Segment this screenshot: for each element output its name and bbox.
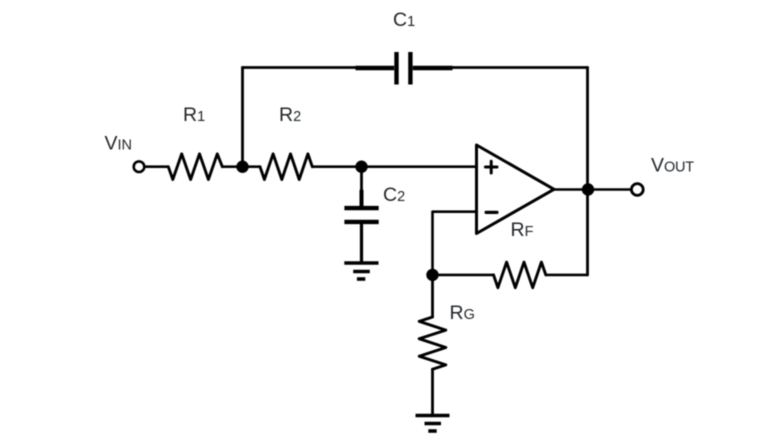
wire: R2 to node B <box>312 165 361 168</box>
wire: node A up to top feedback rail <box>241 68 244 167</box>
op-amp minus sign (inverting input) <box>486 211 497 214</box>
ground (below RG) <box>416 416 450 432</box>
svg-text:R1: R1 <box>183 104 205 126</box>
wire: output rail down from top to output node <box>586 68 589 190</box>
op-amp U1 <box>477 145 555 234</box>
wire: node D up and right to op-amp inverting input <box>433 212 477 275</box>
capacitor C1 left plate <box>394 52 398 85</box>
wire: input terminal to R1 <box>146 165 168 168</box>
node C (output node) <box>582 183 594 195</box>
wire: top rail left segment to C1 <box>243 66 356 69</box>
resistor R1 <box>168 154 222 180</box>
op-amp plus sign (non-inverting input) <box>485 161 497 173</box>
resistor R2 <box>260 154 312 180</box>
wire: node D down to RG <box>431 275 434 317</box>
wire: RG to ground <box>431 369 434 414</box>
node A (junction of R1, R2, C1 branch) <box>236 161 248 173</box>
capacitor C2 top lead <box>360 167 363 191</box>
wire: output rail down to feedback row <box>586 190 589 275</box>
wire: top rail right segment to output rail <box>453 66 588 69</box>
wire: RF to node D <box>433 274 494 277</box>
resistor RG <box>419 317 446 369</box>
ground (below C2) <box>344 263 378 279</box>
node D (junction of RF, RG, inverting input) <box>426 269 438 281</box>
wire: node A to R2 <box>243 165 261 168</box>
svg-text:VIN: VIN <box>105 133 133 155</box>
capacitor C1 right plate <box>408 52 412 85</box>
svg-text:R2: R2 <box>279 104 301 126</box>
resistor RF <box>494 262 546 288</box>
input terminal (open circle) <box>134 161 145 172</box>
capacitor C1 right lead (thick) <box>413 66 453 70</box>
svg-text:VOUT: VOUT <box>651 155 694 177</box>
node B (junction of R2, C2, op-amp input) <box>355 161 367 173</box>
output terminal (open circle) <box>631 184 643 196</box>
svg-text:RG: RG <box>450 302 475 324</box>
svg-text:C1: C1 <box>393 9 415 31</box>
wire: feedback row right segment (output rail to RF) <box>546 274 588 277</box>
capacitor C1 left lead (thick) <box>356 66 395 70</box>
svg-text:C2: C2 <box>383 184 405 206</box>
capacitor C2 bottom plate <box>344 220 378 224</box>
wire: node B to op-amp non-inverting input <box>362 165 477 168</box>
wire: R1 to node A <box>222 165 242 168</box>
svg-text:RF: RF <box>511 219 534 241</box>
capacitor C2 bottom lead <box>360 224 363 262</box>
wire: op-amp output to output node and terminal <box>554 188 631 191</box>
capacitor C2 top plate <box>344 206 378 210</box>
